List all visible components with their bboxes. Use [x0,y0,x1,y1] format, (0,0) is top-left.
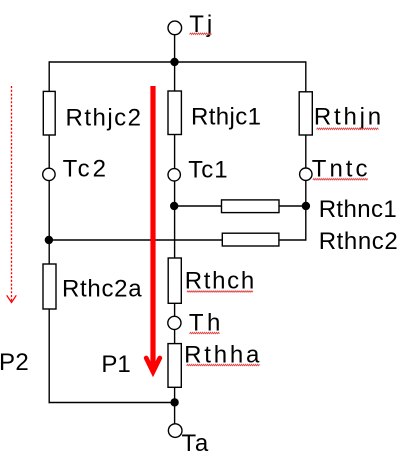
svg-text:Tc2: Tc2 [63,156,109,183]
svg-text:Rthc2a: Rthc2a [62,276,142,303]
svg-text:Rthjc2: Rthjc2 [66,104,143,131]
svg-text:Rthjc1: Rthjc1 [191,103,261,130]
svg-text:P2: P2 [0,349,29,376]
svg-text:P1: P1 [101,351,130,378]
svg-text:Rthnc1: Rthnc1 [319,196,397,223]
svg-text:Ta: Ta [182,430,210,457]
svg-text:Rthnc2: Rthnc2 [319,228,399,255]
svg-text:Rthjn: Rthjn [314,103,384,130]
svg-text:Tc1: Tc1 [188,156,228,183]
